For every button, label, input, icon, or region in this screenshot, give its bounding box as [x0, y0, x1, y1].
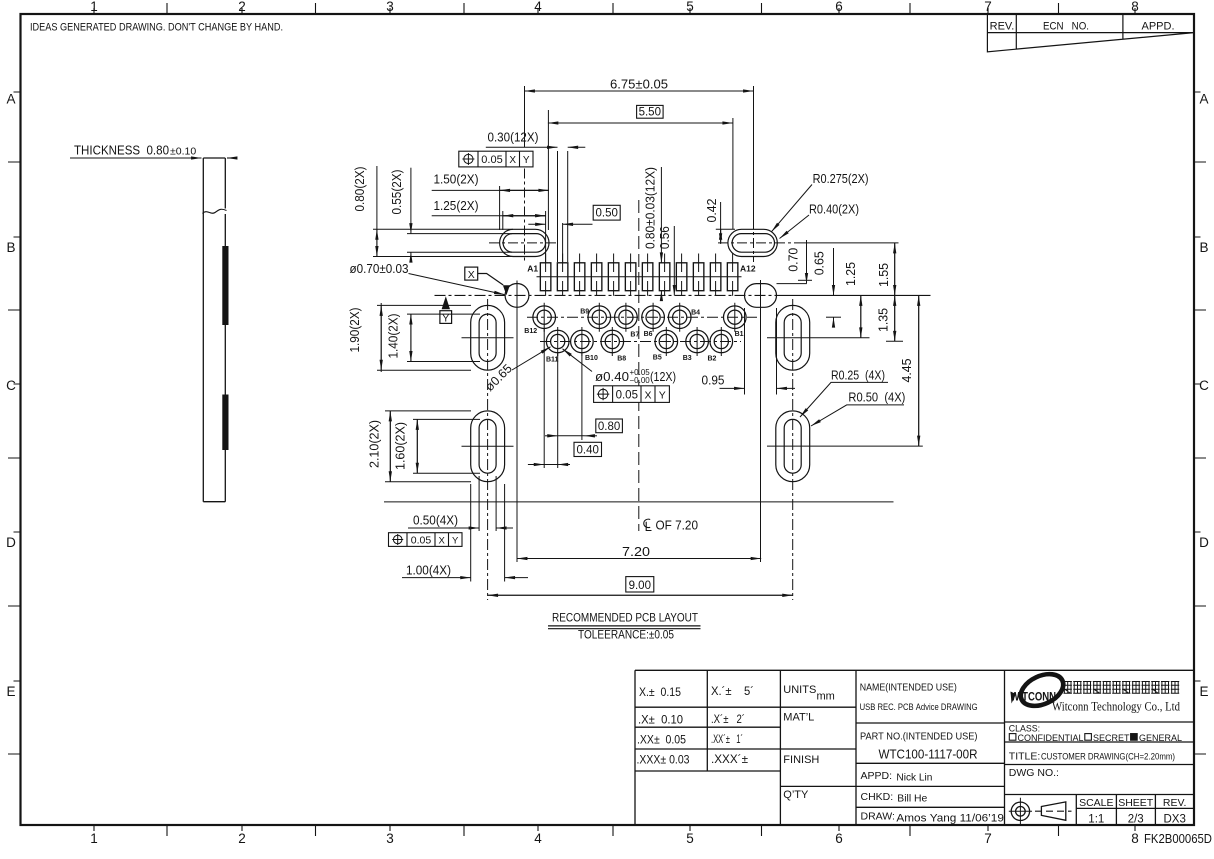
- svg-text:X: X: [509, 155, 516, 166]
- svg-text:mm: mm: [817, 691, 835, 703]
- svg-text:0.56: 0.56: [658, 226, 672, 249]
- svg-text:.XXX´±: .XXX´±: [711, 752, 748, 766]
- svg-text:RECOMMENDED PCB LAYOUT: RECOMMENDED PCB LAYOUT: [552, 611, 699, 625]
- svg-text:A1: A1: [527, 264, 538, 274]
- svg-text:7: 7: [984, 0, 992, 14]
- svg-text:A: A: [6, 92, 15, 107]
- svg-text:B6: B6: [644, 331, 653, 338]
- shell slot upper-left inner: [479, 314, 496, 361]
- svg-text:GENERAL: GENERAL: [1139, 733, 1182, 743]
- svg-text:SECRET: SECRET: [1093, 733, 1130, 743]
- svg-text:TITLE:: TITLE:: [1009, 751, 1041, 763]
- svg-text:B2: B2: [708, 356, 717, 363]
- svg-text:X: X: [644, 389, 651, 401]
- svg-text:REV.: REV.: [990, 21, 1015, 33]
- svg-text:1.55: 1.55: [877, 263, 891, 287]
- svg-text:X: X: [468, 269, 475, 281]
- svg-text:B4: B4: [691, 310, 700, 317]
- svg-text:DWG NO.:: DWG NO.:: [1009, 767, 1059, 779]
- svg-text:1.90(2X): 1.90(2X): [348, 308, 362, 353]
- oval 0.95 top edge extension right: [777, 283, 807, 285]
- oval slot 0.95 right: [745, 284, 777, 308]
- svg-text:R0.25 (4X): R0.25 (4X): [831, 369, 885, 383]
- zone row boundary ticks left: [8, 162, 21, 754]
- locating hole circle 0.70: [505, 284, 529, 308]
- scale sheet rev: [1079, 797, 1186, 809]
- svg-text:±0.10: ±0.10: [170, 146, 196, 158]
- svg-text:2: 2: [238, 831, 246, 846]
- svg-text:R0.50 (4X): R0.50 (4X): [848, 391, 905, 405]
- svg-text:7.20: 7.20: [622, 545, 650, 559]
- svg-text:B9: B9: [580, 309, 589, 316]
- svg-text:B: B: [1199, 240, 1208, 255]
- svg-text:R0.275(2X): R0.275(2X): [813, 172, 869, 186]
- svg-text:DRAW:: DRAW:: [861, 811, 895, 823]
- shell slot lower-left horizontal tick: [462, 445, 514, 447]
- shell slot upper-right horizontal tick and 1.25 extension: [767, 337, 870, 339]
- pad vertical centerlines: [546, 254, 733, 296]
- tht holes B bottom row (B11 B10 B8 B5 B3 B2): [546, 330, 732, 353]
- svg-text:5.50: 5.50: [639, 107, 661, 119]
- svg-text:A12: A12: [740, 264, 756, 274]
- svg-text:OF 7.20: OF 7.20: [656, 519, 699, 533]
- side view: break wave: [203, 209, 227, 213]
- zone numbers top: [90, 0, 1139, 14]
- title block: tolerance column texts: [637, 684, 755, 767]
- title block grid: [635, 670, 1194, 825]
- oval top-right horizontal centerline: [718, 242, 800, 244]
- svg-text:Amos Yang 11/06’19: Amos Yang 11/06’19: [896, 812, 1004, 824]
- datum X symbol: [465, 267, 503, 285]
- svg-text:ECN NO.: ECN NO.: [1043, 21, 1089, 33]
- svg-text:TOLEERANCE:±0.05: TOLEERANCE:±0.05: [578, 630, 674, 642]
- projection line bottom: [384, 501, 894, 503]
- svg-text:.XXX± 0.03: .XXX± 0.03: [637, 753, 690, 767]
- svg-text:0.05: 0.05: [411, 535, 432, 547]
- B row top centerline: [527, 316, 757, 318]
- svg-text:0.42: 0.42: [705, 198, 719, 222]
- svg-text:1.00(4X): 1.00(4X): [406, 564, 451, 578]
- svg-text:.X± 0.10: .X± 0.10: [638, 713, 683, 727]
- position tolerance frame bottom left: [389, 533, 463, 547]
- svg-text:B11: B11: [546, 357, 559, 364]
- svg-text:6: 6: [835, 0, 843, 14]
- zone numbers bottom: [90, 831, 1139, 846]
- svg-text:B1: B1: [735, 331, 744, 338]
- svg-text:7: 7: [984, 831, 992, 846]
- svg-text:B3: B3: [683, 355, 692, 362]
- svg-text:0.05: 0.05: [616, 389, 638, 401]
- B column extension lines down: [544, 329, 582, 469]
- svg-text:4.45: 4.45: [900, 358, 914, 382]
- shell slot upper-left horizontal tick: [462, 337, 514, 339]
- svg-text:PART NO.(INTENDED USE): PART NO.(INTENDED USE): [860, 731, 978, 743]
- shell hole oval top-left inner: [503, 234, 545, 253]
- tht holes B top row (B12 B9 B7 B6 B4 B1): [533, 306, 746, 329]
- svg-text:B: B: [6, 240, 15, 255]
- svg-text:APPD.: APPD.: [1141, 21, 1174, 33]
- svg-text:MAT’L: MAT’L: [783, 712, 814, 724]
- svg-text:E: E: [1199, 684, 1208, 699]
- svg-text:WITCONN: WITCONN: [1011, 692, 1057, 704]
- side view: thickness dim leader and arrows: [70, 157, 237, 159]
- zone row boundary ticks right: [1194, 162, 1206, 754]
- svg-text:FINISH: FINISH: [783, 754, 819, 766]
- company logo swoosh: [1011, 668, 1069, 712]
- dim 9.00 boxed: [488, 577, 793, 596]
- oval 0.95 side extension lines down: [745, 308, 777, 395]
- zone number ticks bottom: [94, 825, 1135, 831]
- shell slot lower-right outer: [776, 411, 810, 482]
- projection symbol: [1009, 798, 1072, 825]
- shell slot upper-left outer: [471, 305, 505, 370]
- svg-text:X: X: [439, 536, 446, 547]
- shell slot upper-right inner: [784, 314, 801, 361]
- svg-text:6: 6: [835, 831, 843, 846]
- oval top-left extension lines left: [373, 229, 513, 256]
- svg-text:1: 1: [90, 0, 98, 14]
- svg-text:1.60(2X): 1.60(2X): [394, 422, 408, 470]
- svg-text:Nick Lin: Nick Lin: [896, 772, 932, 784]
- leader dia 0.40: [563, 349, 593, 372]
- svg-text:CHKD:: CHKD:: [861, 791, 894, 803]
- svg-text:1:1: 1:1: [1088, 814, 1104, 826]
- position tolerance frame middle: [594, 386, 670, 403]
- shell slot lower-left outer: [471, 411, 505, 482]
- svg-text:B5: B5: [653, 355, 662, 362]
- svg-text:E: E: [6, 684, 15, 699]
- side view: PCB section outline: [203, 158, 227, 502]
- shell hole oval top-right outer: [728, 229, 777, 256]
- connector vertical centerline: [638, 200, 640, 531]
- zone letters right: [1199, 92, 1209, 700]
- shell hole oval top-left outer: [500, 229, 549, 256]
- svg-text:Y: Y: [659, 389, 666, 401]
- svg-text:6.75±0.05: 6.75±0.05: [610, 78, 668, 92]
- svg-text:0.40: 0.40: [577, 445, 599, 457]
- svg-text:0.80±0.03(12X): 0.80±0.03(12X): [644, 167, 658, 249]
- svg-text:X.± 0.15: X.± 0.15: [639, 685, 681, 699]
- svg-text:FK2B00065D: FK2B00065D: [1144, 831, 1212, 846]
- svg-text:DX3: DX3: [1164, 814, 1186, 826]
- smt pads A1-A12: [540, 263, 738, 291]
- svg-text:1.40(2X): 1.40(2X): [387, 314, 401, 359]
- svg-text:D: D: [6, 535, 16, 550]
- zone row center ticks right: [1194, 92, 1201, 681]
- svg-text:Y: Y: [452, 536, 459, 547]
- centerline note CL OF 7.20: [644, 519, 652, 530]
- svg-text:A: A: [1199, 92, 1208, 107]
- zone number ticks top: [94, 8, 1135, 14]
- slot extension lines bottom left: [471, 476, 505, 582]
- svg-text:0.50(4X): 0.50(4X): [413, 514, 458, 528]
- company chinese name (glyph blocks): [1064, 682, 1180, 694]
- svg-text:4: 4: [534, 0, 542, 14]
- svg-text:−0.00: −0.00: [630, 376, 651, 385]
- dim 0.80 boxed: [545, 419, 622, 436]
- svg-text:SCALE: SCALE: [1079, 797, 1113, 809]
- svg-text:(12X): (12X): [650, 370, 676, 384]
- svg-text:1: 1: [90, 831, 98, 846]
- svg-text:B7: B7: [630, 332, 639, 339]
- title block: middle column labels: [783, 684, 835, 801]
- shell slot lower-left inner: [479, 419, 496, 473]
- svg-text:ø0.70±0.03: ø0.70±0.03: [350, 262, 409, 276]
- svg-text:Bill He: Bill He: [897, 793, 927, 805]
- svg-text:9.00: 9.00: [629, 580, 651, 592]
- svg-text:B8: B8: [617, 356, 626, 363]
- svg-text:0.65: 0.65: [812, 251, 826, 275]
- svg-text:REV.: REV.: [1163, 797, 1187, 809]
- svg-text:X.´± 5´: X.´± 5´: [711, 684, 754, 698]
- svg-text:Witconn Technology Co., Ltd: Witconn Technology Co., Ltd: [1052, 699, 1180, 714]
- slot vertical centerlines left and right: [487, 299, 489, 600]
- svg-text:B10: B10: [585, 355, 598, 362]
- svg-text:THICKNESS 0.80: THICKNESS 0.80: [74, 144, 169, 158]
- zone row center ticks left: [14, 92, 21, 681]
- svg-text:5: 5: [686, 831, 694, 846]
- B row bottom centerline: [540, 341, 741, 343]
- svg-text:APPD:: APPD:: [861, 770, 893, 782]
- svg-text:Q’TY: Q’TY: [783, 789, 809, 801]
- svg-text:0.80: 0.80: [598, 421, 620, 433]
- datum Y symbol: [442, 296, 450, 309]
- leader dia 0.65: [512, 347, 551, 370]
- svg-text:8: 8: [1131, 0, 1139, 14]
- svg-text:8: 8: [1131, 831, 1139, 846]
- svg-text:Y: Y: [523, 155, 530, 166]
- svg-text:CONFIDENTIAL: CONFIDENTIAL: [1018, 733, 1084, 743]
- shell slot lower-right horizontal tick and 4.45 extension: [767, 445, 923, 447]
- svg-text:ø0.40: ø0.40: [595, 370, 629, 384]
- svg-text:2: 2: [238, 0, 246, 14]
- svg-text:B12: B12: [524, 328, 537, 335]
- oval 0.95 vertical centerline and 7.20 extension: [760, 280, 762, 562]
- svg-text:1.50(2X): 1.50(2X): [434, 173, 479, 187]
- pin labels B row: [524, 309, 743, 364]
- shell centerline horizontal: [435, 294, 777, 296]
- title block: name column: [860, 682, 1004, 825]
- position tolerance frame top: [459, 151, 533, 167]
- zone boundary ticks bottom: [167, 825, 1059, 836]
- svg-text:CUSTOMER DRAWING(CH=2.20mm): CUSTOMER DRAWING(CH=2.20mm): [1041, 752, 1175, 762]
- svg-text:2/3: 2/3: [1128, 814, 1144, 826]
- svg-text:5: 5: [686, 0, 694, 14]
- svg-text:0.80(2X): 0.80(2X): [353, 167, 367, 212]
- svg-text:WTC100-1117-00R: WTC100-1117-00R: [879, 747, 978, 761]
- svg-text:1.25(2X): 1.25(2X): [434, 199, 479, 213]
- svg-text:SHEET: SHEET: [1118, 797, 1154, 809]
- svg-text:UNITS: UNITS: [783, 684, 816, 696]
- svg-text:.X´± 2´: .X´± 2´: [711, 712, 745, 726]
- svg-text:0.30(12X): 0.30(12X): [488, 131, 539, 145]
- oval top-right centerline extension right: [800, 242, 899, 244]
- dim 0.50 boxed: [528, 205, 620, 262]
- svg-text:NAME(INTENDED USE): NAME(INTENDED USE): [860, 682, 957, 694]
- svg-text:0.55(2X): 0.55(2X): [390, 170, 404, 215]
- pad row horizontal line: [537, 276, 742, 278]
- svg-text:C: C: [1199, 378, 1209, 393]
- revision table headers: [990, 21, 1175, 33]
- side view: plated pad bands: [222, 246, 228, 450]
- svg-text:0.95: 0.95: [702, 374, 725, 388]
- zone letters left: [6, 92, 16, 700]
- svg-text:0.70: 0.70: [787, 248, 801, 272]
- svg-text:D: D: [1199, 535, 1209, 550]
- svg-text:USB REC. PCB Advice DRAWING: USB REC. PCB Advice DRAWING: [860, 702, 978, 712]
- oval top-left horizontal centerline: [489, 242, 558, 244]
- svg-text:C: C: [6, 378, 16, 393]
- leader dia 0.70: [409, 274, 505, 295]
- oval top-right top edge tick for 0.42: [716, 228, 735, 230]
- shell slot upper-right outer: [776, 305, 810, 370]
- shell slot lower-right inner: [784, 419, 801, 473]
- oval top-left vertical centerline: [524, 169, 526, 263]
- svg-text:1.35: 1.35: [877, 308, 891, 332]
- svg-text:2.10(2X): 2.10(2X): [368, 420, 382, 468]
- B bottom row hole centerline ticks: [558, 327, 722, 356]
- svg-text:R0.40(2X): R0.40(2X): [809, 203, 859, 217]
- svg-text:IDEAS GENERATED DRAWING. DON'T: IDEAS GENERATED DRAWING. DON'T CHANGE BY…: [30, 22, 283, 34]
- shell hole oval top-right inner: [732, 234, 774, 253]
- svg-text:3: 3: [386, 831, 394, 846]
- B top row hole centerline ticks: [544, 303, 735, 332]
- caption underline double: [548, 626, 701, 629]
- revision table top right: [987, 14, 1194, 52]
- locating hole vertical line and 7.20 extension: [516, 281, 518, 563]
- svg-text:4: 4: [534, 831, 542, 846]
- svg-text:0.50: 0.50: [596, 208, 618, 220]
- svg-text:1.25: 1.25: [844, 262, 858, 286]
- dim 5.50 boxed: [548, 105, 733, 230]
- svg-text:0.05: 0.05: [481, 154, 502, 166]
- dim 0.40 boxed: [528, 442, 602, 464]
- svg-text:.XX´± 1´: .XX´± 1´: [711, 732, 743, 746]
- zone boundary ticks top: [167, 3, 1059, 14]
- svg-text:.XX± 0.05: .XX± 0.05: [637, 733, 686, 747]
- oval top-right vertical centerline: [753, 219, 755, 262]
- svg-text:3: 3: [386, 0, 394, 14]
